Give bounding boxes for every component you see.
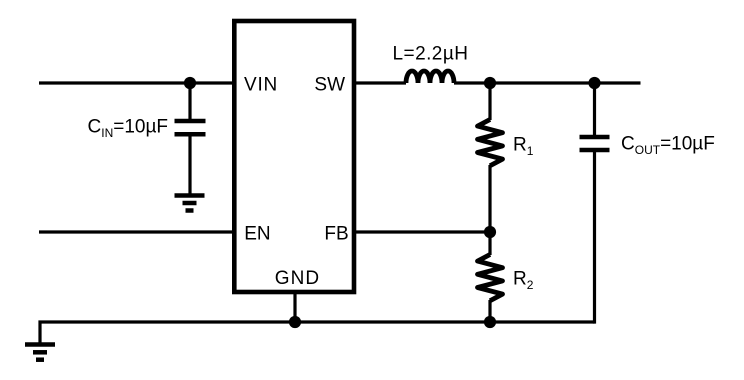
- wire: FB pin to feedback node: [354, 230, 490, 233]
- wire: R1 bottom lead: [488, 165, 491, 232]
- wire: VIN input rail (left): [39, 81, 234, 84]
- resistor R1: [478, 120, 503, 166]
- wire: C_IN bottom lead: [188, 136, 191, 195]
- capacitor C_OUT plates: [580, 137, 610, 150]
- node: FB / R1-R2 junction: [484, 226, 496, 238]
- capacitor C_IN plates: [175, 121, 206, 134]
- svg-text:SW: SW: [314, 74, 345, 95]
- svg-text:COUT=10µF: COUT=10µF: [621, 134, 715, 157]
- wire: C_IN top lead: [188, 83, 191, 119]
- node: VIN / C_IN junction: [184, 77, 196, 89]
- wire: GND pin lead: [293, 292, 296, 322]
- svg-text:GND: GND: [275, 268, 321, 289]
- node: GND pin / ground rail junction: [289, 316, 301, 328]
- svg-text:R2: R2: [513, 268, 534, 292]
- node: output / C_OUT junction: [588, 77, 600, 89]
- wire: SW pin to inductor: [354, 81, 406, 84]
- wire: C_OUT bottom lead: [593, 152, 596, 324]
- wire: EN input: [39, 230, 234, 233]
- resistor R2: [478, 255, 503, 301]
- svg-text:FB: FB: [324, 224, 348, 245]
- svg-text:EN: EN: [244, 224, 270, 245]
- ground (bottom left): [25, 345, 55, 360]
- wire: R2 bottom lead: [488, 300, 491, 322]
- wire: ground rail (bottom): [40, 322, 595, 343]
- svg-text:VIN: VIN: [244, 74, 278, 95]
- svg-text:R1: R1: [513, 134, 534, 158]
- node: SW output / R1 junction: [484, 77, 496, 89]
- wire: R2 top lead: [488, 232, 491, 255]
- inductor L1: [406, 71, 454, 83]
- svg-text:CIN=10µF: CIN=10µF: [88, 116, 169, 140]
- node: R2 / ground rail junction: [484, 316, 496, 328]
- ground (under C_IN): [175, 196, 205, 211]
- wire: R1 top lead: [488, 83, 491, 120]
- wire: C_OUT top lead: [593, 83, 596, 135]
- op-amp U1 (regulator IC box): [234, 21, 354, 292]
- wire: inductor to output rail: [454, 81, 641, 84]
- svg-text:L=2.2µH: L=2.2µH: [393, 43, 469, 64]
